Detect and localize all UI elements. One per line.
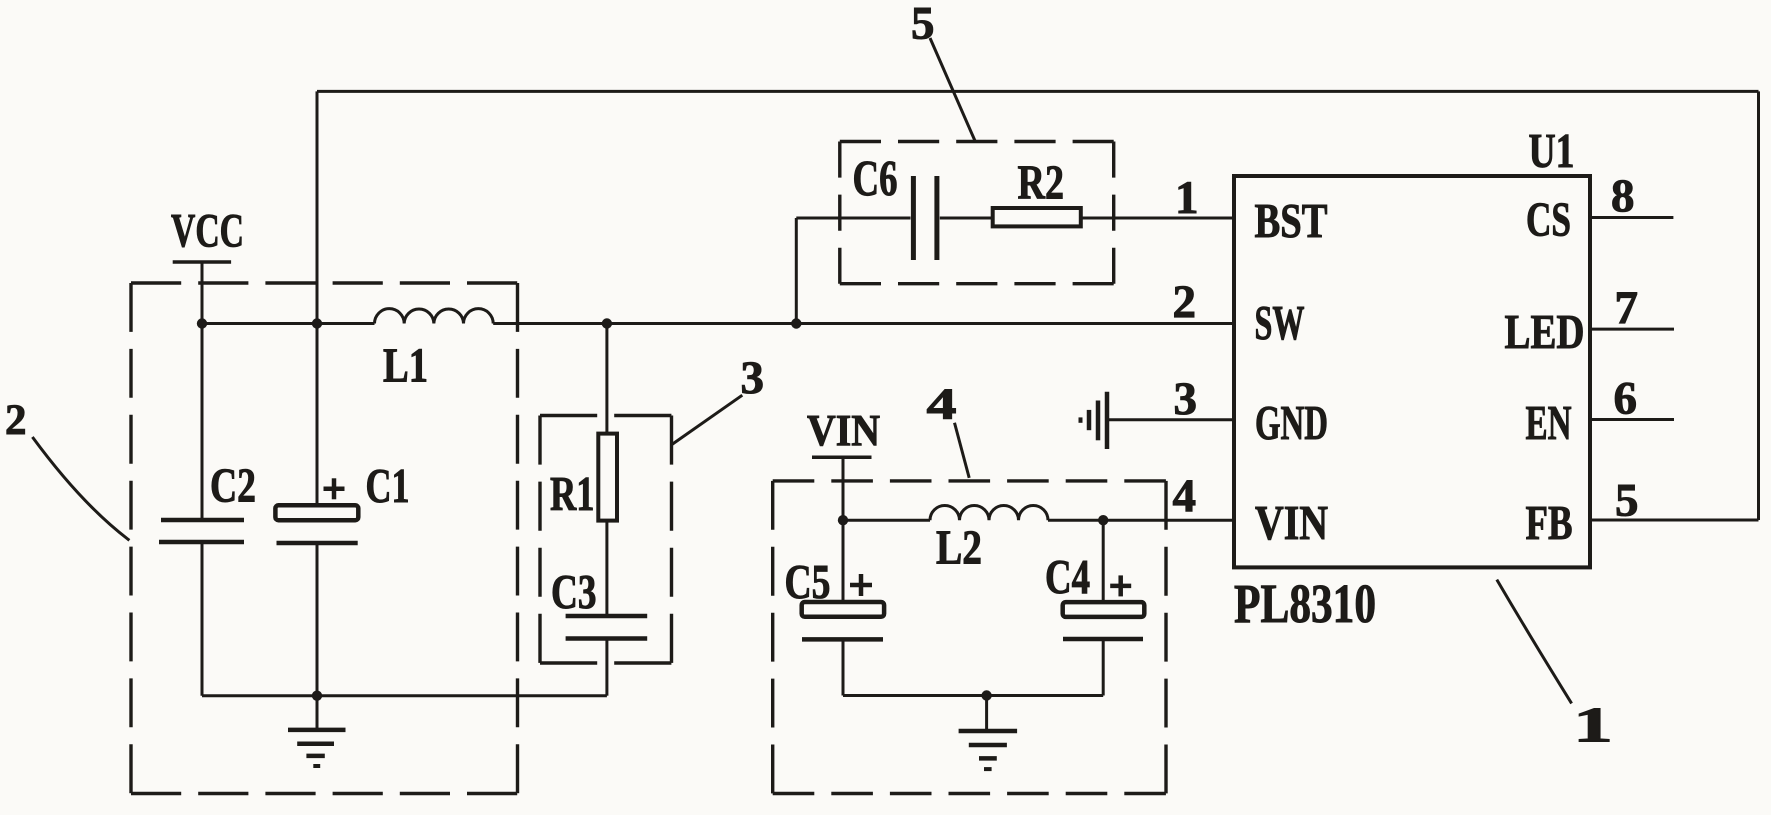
svg-text:SW: SW: [1255, 295, 1305, 350]
svg-text:4: 4: [1173, 470, 1197, 522]
svg-text:EN: EN: [1526, 395, 1572, 450]
svg-text:C1: C1: [366, 460, 410, 513]
svg-text:8: 8: [1611, 170, 1635, 222]
svg-text:1: 1: [1573, 697, 1613, 753]
svg-text:CS: CS: [1526, 192, 1571, 247]
svg-text:R2: R2: [1018, 157, 1065, 210]
svg-text:C4: C4: [1045, 551, 1090, 604]
svg-text:VCC: VCC: [171, 205, 244, 258]
svg-text:PL8310: PL8310: [1234, 573, 1376, 634]
svg-text:L2: L2: [936, 522, 982, 575]
svg-text:C6: C6: [853, 152, 898, 208]
svg-text:BST: BST: [1255, 193, 1328, 248]
svg-text:5: 5: [911, 0, 935, 49]
svg-text:L1: L1: [383, 340, 428, 393]
svg-text:1: 1: [1175, 172, 1199, 224]
svg-text:C5: C5: [785, 556, 831, 609]
svg-text:U1: U1: [1529, 123, 1575, 178]
svg-text:2: 2: [1173, 276, 1197, 328]
svg-text:LED: LED: [1505, 304, 1585, 359]
svg-text:5: 5: [1615, 475, 1639, 527]
svg-text:6: 6: [1614, 373, 1638, 425]
svg-text:R1: R1: [550, 468, 595, 521]
svg-text:3: 3: [741, 352, 765, 404]
svg-text:GND: GND: [1255, 395, 1328, 450]
svg-text:3: 3: [1174, 373, 1198, 425]
svg-text:FB: FB: [1526, 495, 1573, 550]
svg-text:2: 2: [5, 397, 27, 444]
svg-text:C2: C2: [210, 460, 256, 513]
svg-text:VIN: VIN: [807, 406, 880, 455]
svg-text:C3: C3: [551, 566, 597, 619]
svg-text:4: 4: [927, 379, 957, 428]
svg-text:VIN: VIN: [1255, 495, 1328, 550]
svg-text:7: 7: [1615, 282, 1639, 334]
